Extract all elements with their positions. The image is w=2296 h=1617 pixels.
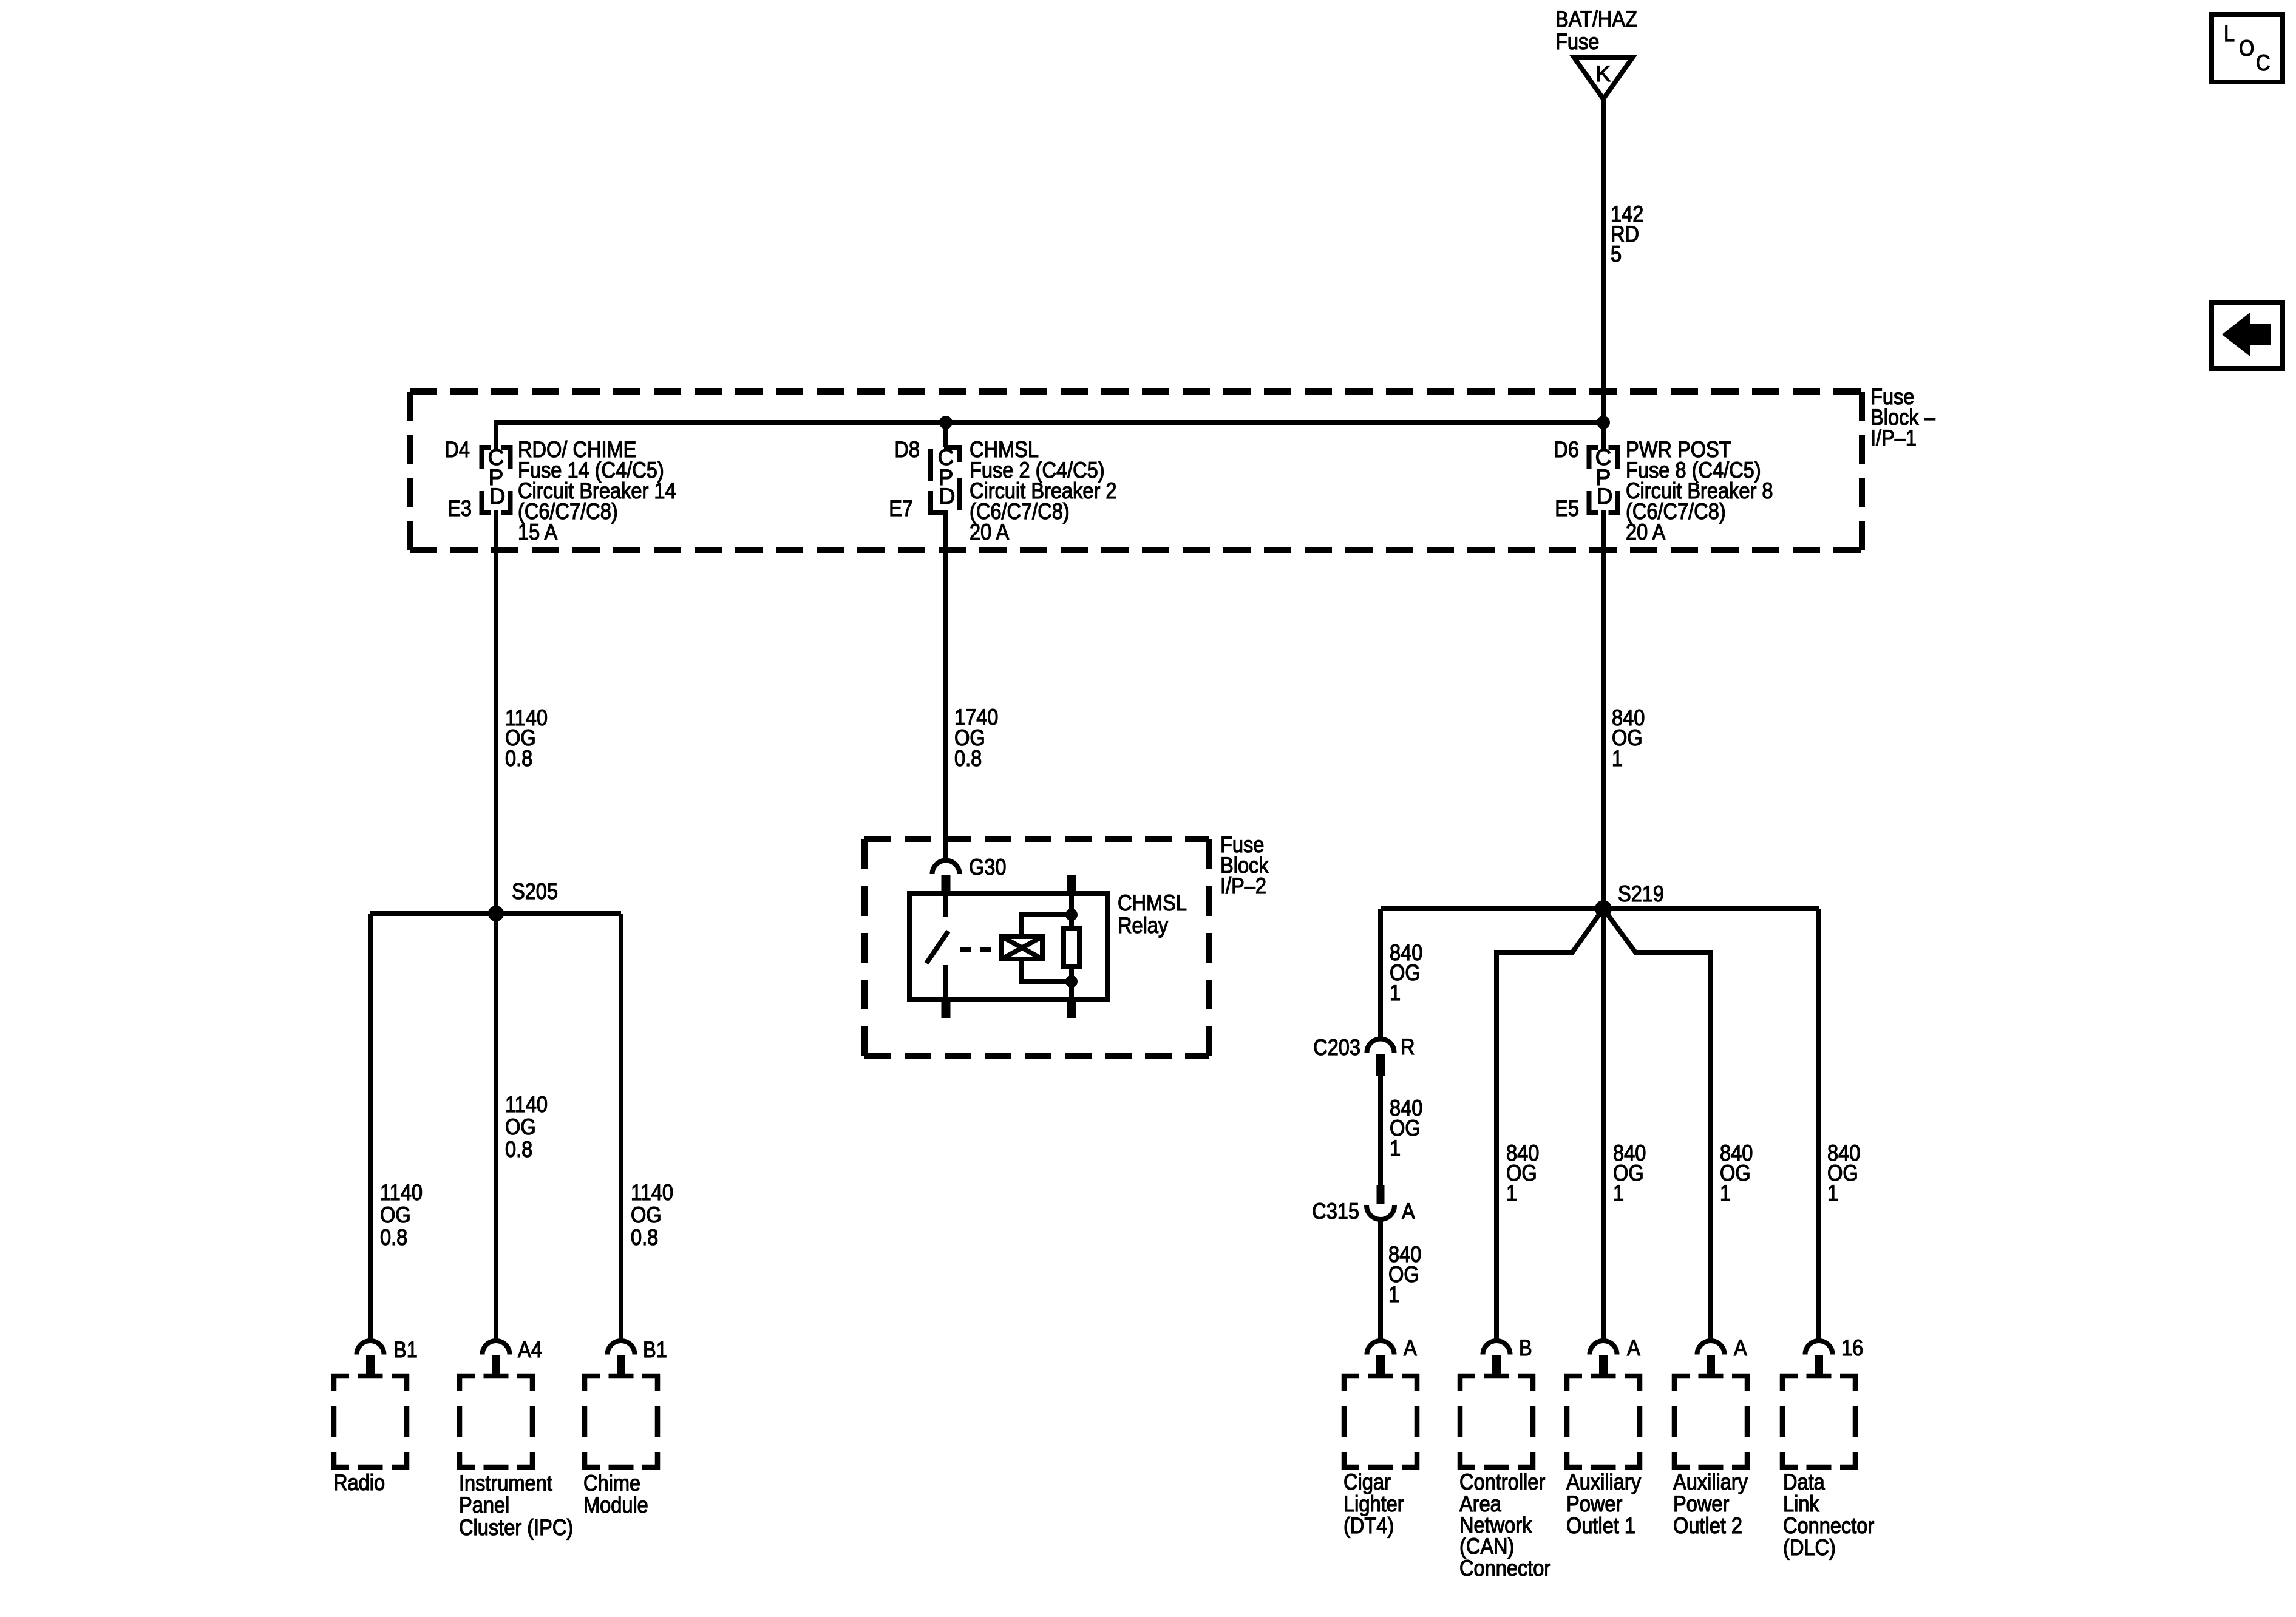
fuse symbol K (triangle)	[1574, 58, 1632, 99]
bus wire from 142 RD to D4/D8 fuses	[496, 422, 1603, 449]
wire S205 to IPC	[494, 914, 498, 1341]
wire C203 to C315	[1378, 1076, 1383, 1185]
svg-text:1140: 1140	[505, 1092, 548, 1117]
svg-text:1: 1	[1390, 1136, 1401, 1161]
svg-text:D: D	[939, 484, 956, 509]
svg-text:R: R	[1401, 1034, 1415, 1059]
connector pin A at Aux Power Outlet 1	[1590, 1341, 1617, 1355]
svg-text:(DT4): (DT4)	[1343, 1513, 1394, 1538]
in-line connector C203 pin R	[1367, 1039, 1394, 1053]
svg-text:D: D	[1597, 484, 1613, 509]
relay actuation dashed link	[960, 947, 1002, 952]
svg-text:G30: G30	[969, 855, 1007, 880]
svg-text:OG: OG	[505, 1114, 536, 1139]
Instrument Panel Cluster box	[460, 1376, 532, 1467]
svg-text:K: K	[1596, 61, 1611, 86]
svg-text:1: 1	[1612, 746, 1623, 771]
branch to DLC (far right)	[1816, 909, 1821, 1341]
svg-text:E3: E3	[447, 496, 472, 521]
svg-text:0.8: 0.8	[954, 746, 982, 771]
wire S205 to Radio	[368, 914, 373, 1341]
svg-text:I/P–1: I/P–1	[1870, 425, 1917, 450]
Aux Power Outlet 1 box	[1567, 1376, 1640, 1467]
svg-text:OG: OG	[380, 1202, 411, 1227]
svg-text:B: B	[1519, 1335, 1532, 1360]
svg-text:1140: 1140	[631, 1180, 673, 1205]
svg-text:A: A	[1404, 1335, 1417, 1360]
connector pin B1 at Radio	[357, 1341, 384, 1355]
junction node at D8 tap	[939, 416, 953, 429]
Chime Module box	[585, 1376, 657, 1467]
in-line connector C315 pin A	[1377, 1185, 1385, 1204]
svg-text:C203: C203	[1313, 1035, 1360, 1060]
Radio box	[334, 1376, 407, 1467]
svg-text:D4: D4	[444, 437, 470, 462]
svg-text:D8: D8	[894, 437, 920, 462]
connector pin A4 at IPC	[483, 1341, 510, 1355]
svg-text:Outlet 1: Outlet 1	[1566, 1513, 1635, 1538]
svg-text:1: 1	[1506, 1181, 1517, 1205]
relay pin 2 wire	[1069, 893, 1074, 929]
svg-text:Auxiliary: Auxiliary	[1673, 1470, 1748, 1494]
svg-text:C: C	[2256, 50, 2271, 75]
svg-text:BAT/HAZ: BAT/HAZ	[1555, 7, 1637, 32]
svg-text:15 A: 15 A	[518, 520, 557, 544]
svg-text:0.8: 0.8	[380, 1225, 407, 1250]
splice S205	[488, 906, 504, 921]
svg-text:Connector: Connector	[1459, 1556, 1550, 1581]
svg-text:0.8: 0.8	[631, 1225, 658, 1250]
svg-text:Power: Power	[1673, 1491, 1729, 1516]
connector pin B at CAN connector	[1483, 1341, 1510, 1355]
coil wire to upper node	[1022, 915, 1072, 937]
svg-text:A4: A4	[518, 1337, 542, 1362]
svg-text:Chime: Chime	[583, 1471, 640, 1496]
svg-text:L: L	[2224, 21, 2235, 46]
relay switch lower contact	[943, 965, 948, 999]
svg-text:Relay: Relay	[1118, 913, 1169, 938]
wire 1740 OG 0.8 from E7 to fuse block I/P-2	[943, 513, 948, 861]
svg-text:(DLC): (DLC)	[1783, 1535, 1836, 1560]
svg-text:Lighter: Lighter	[1343, 1491, 1404, 1516]
DLC box	[1782, 1376, 1855, 1467]
Fuse Block I/P-2 dashed outline	[864, 839, 1209, 1056]
svg-text:Module: Module	[583, 1493, 648, 1517]
Aux Power Outlet 2 box	[1674, 1376, 1747, 1467]
splice bar S219	[1381, 906, 1819, 911]
branch to aux power outlet 1 (straight down)	[1601, 909, 1606, 1341]
svg-text:1: 1	[1390, 980, 1401, 1005]
coil wire to lower node	[1022, 959, 1072, 981]
wire 840 OG 1 from E5 to S219	[1601, 510, 1606, 909]
svg-text:20 A: 20 A	[970, 520, 1009, 544]
branch to cigar lighter (far left)	[1378, 909, 1383, 1039]
svg-text:Data: Data	[1783, 1470, 1825, 1494]
svg-text:Link: Link	[1783, 1491, 1819, 1516]
relay pin 1 lower stub	[942, 999, 951, 1018]
svg-text:1140: 1140	[380, 1180, 423, 1205]
svg-text:D6: D6	[1554, 437, 1579, 462]
svg-text:1: 1	[1613, 1181, 1624, 1205]
svg-text:O: O	[2239, 36, 2254, 61]
svg-text:16: 16	[1841, 1335, 1863, 1360]
svg-text:1: 1	[1388, 1282, 1399, 1307]
svg-text:D: D	[489, 484, 506, 509]
wire S205 to Chime	[619, 914, 623, 1341]
svg-text:0.8: 0.8	[505, 746, 532, 771]
svg-text:Controller: Controller	[1459, 1470, 1545, 1494]
svg-text:E7: E7	[889, 496, 913, 521]
wire C315 to cigar lighter	[1378, 1219, 1383, 1341]
back-arrow page icon	[2212, 302, 2283, 368]
svg-text:1: 1	[1720, 1181, 1731, 1205]
svg-text:A: A	[1627, 1335, 1640, 1360]
svg-text:A: A	[1402, 1199, 1415, 1224]
Cigar Lighter box	[1344, 1376, 1417, 1467]
svg-text:S205: S205	[512, 879, 558, 904]
svg-text:E5: E5	[1555, 496, 1579, 521]
svg-text:1: 1	[1827, 1181, 1838, 1205]
fuse/circuit-breaker D6/E5 PWR POST: bracket symbol	[1589, 447, 1618, 513]
svg-text:Auxiliary: Auxiliary	[1566, 1470, 1641, 1494]
CHMSL relay outline	[909, 893, 1107, 999]
junction node coil/resistor top	[1065, 909, 1078, 921]
junction node at 142 RD entry	[1597, 416, 1610, 429]
connector pin 16 at DLC	[1805, 1341, 1833, 1355]
connector pin G30	[932, 861, 960, 875]
svg-text:Fuse: Fuse	[1555, 29, 1599, 54]
svg-text:OG: OG	[631, 1202, 662, 1227]
relay switch contact (pin 1)	[943, 893, 948, 917]
relay internal resistor	[1064, 929, 1079, 967]
relay switch blade	[926, 931, 948, 963]
svg-text:0.8: 0.8	[505, 1137, 532, 1162]
svg-text:S219: S219	[1618, 881, 1664, 906]
fuse/circuit-breaker D8/E7 CHMSL: offset bracket symbol	[931, 447, 960, 513]
wire bus to D8 fuse	[943, 422, 948, 447]
svg-text:A: A	[1734, 1335, 1747, 1360]
junction node coil/resistor bottom	[1065, 975, 1078, 988]
svg-text:I/P–2: I/P–2	[1220, 873, 1266, 898]
splice S219	[1595, 900, 1612, 917]
svg-text:Outlet 2: Outlet 2	[1673, 1513, 1742, 1538]
svg-text:Instrument: Instrument	[459, 1471, 552, 1496]
branch to aux power outlet 2	[1603, 909, 1711, 1341]
svg-text:B1: B1	[643, 1337, 667, 1362]
Fuse Block I/P-1 dashed outline	[410, 392, 1862, 550]
splice bar S205	[370, 911, 621, 916]
CAN connector box	[1460, 1376, 1533, 1467]
svg-text:B1: B1	[393, 1337, 418, 1362]
svg-text:Cluster (IPC): Cluster (IPC)	[459, 1515, 573, 1540]
branch to CAN connector	[1496, 909, 1603, 1341]
svg-text:Connector: Connector	[1783, 1513, 1874, 1538]
relay pin 2 upper stub	[1067, 875, 1076, 893]
svg-text:20 A: 20 A	[1626, 520, 1665, 544]
relay pin 2 lower stub	[1067, 999, 1076, 1018]
connector pin A at Cigar Lighter	[1367, 1341, 1394, 1355]
svg-text:Power: Power	[1566, 1491, 1622, 1516]
wire 142 RD 5 from BAT/HAZ fuse to fuse block	[1601, 99, 1606, 422]
LOC page icon	[2212, 15, 2283, 82]
svg-text:C315: C315	[1312, 1199, 1359, 1224]
svg-text:5: 5	[1611, 242, 1622, 266]
svg-text:Cigar: Cigar	[1343, 1470, 1391, 1494]
svg-text:(CAN): (CAN)	[1459, 1534, 1514, 1559]
svg-text:Radio: Radio	[333, 1470, 385, 1495]
wire 1140 OG 0.8 from E3 to S205	[494, 510, 498, 914]
svg-text:CHMSL: CHMSL	[1118, 890, 1187, 915]
connector pin B1 at Chime Module	[608, 1341, 635, 1355]
fuse/circuit-breaker D4/E3 RDO/CHIME: bracket symbol	[482, 447, 511, 513]
relay coil (box with X)	[1002, 937, 1042, 959]
svg-text:Panel: Panel	[459, 1493, 509, 1517]
wire bus to D6 fuse	[1601, 422, 1606, 449]
connector pin A at Aux Power Outlet 2	[1697, 1341, 1725, 1355]
